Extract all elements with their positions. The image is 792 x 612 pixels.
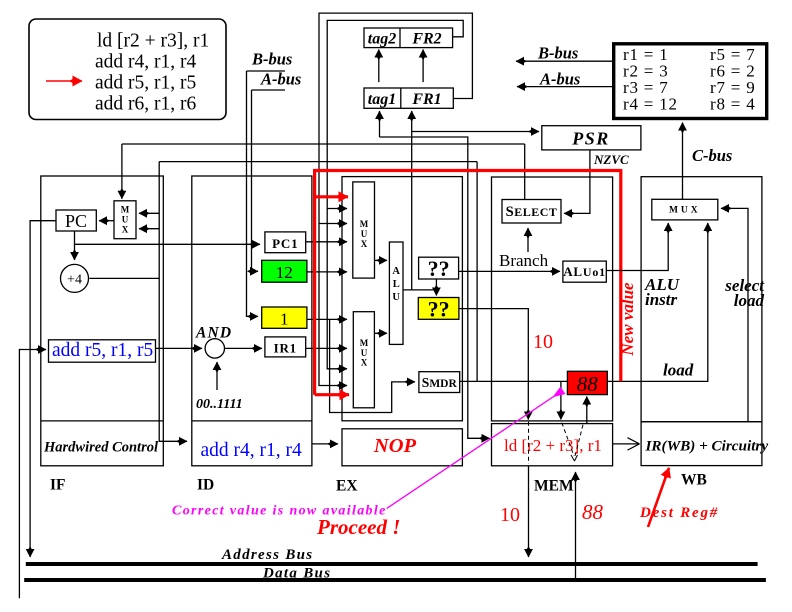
svg-text:load: load xyxy=(734,291,765,310)
svg-text:r8 = 4: r8 = 4 xyxy=(710,95,756,114)
svg-text:ld [r2 + r3], r1: ld [r2 + r3], r1 xyxy=(97,31,209,52)
ID stage box xyxy=(192,176,312,466)
arrow tag1 to tag2 xyxy=(378,50,380,83)
MEM ld box xyxy=(492,424,613,466)
svg-text:r4 = 12: r4 = 12 xyxy=(623,95,678,114)
wire yellow ?? to MEM address xyxy=(459,309,528,420)
arrow into IF mux right input 2 xyxy=(139,228,159,230)
svg-text:NZVC: NZVC xyxy=(593,152,629,167)
svg-text:88: 88 xyxy=(577,372,599,396)
FR1 output loop wire to EX mux2 xyxy=(319,13,472,385)
svg-text:PC1: PC1 xyxy=(272,236,298,251)
wire PC value to PC1 xyxy=(75,243,261,245)
wire yellow latch tap to SMDR xyxy=(330,319,415,412)
svg-text:MUX: MUX xyxy=(669,206,701,216)
B-bus label (left) xyxy=(247,50,293,72)
IR1 box xyxy=(265,337,306,357)
88 red box xyxy=(567,371,607,396)
wire PSR NZVC to Select xyxy=(564,150,590,214)
svg-text:Address Bus: Address Bus xyxy=(221,547,313,563)
Select box xyxy=(502,200,561,224)
svg-text:12: 12 xyxy=(276,263,293,282)
WB mux box xyxy=(652,199,718,220)
wire W1 into Select xyxy=(524,144,526,200)
red forwarding path xyxy=(315,171,621,395)
ALUo1 box xyxy=(563,261,606,282)
SMDR box xyxy=(419,372,460,393)
wire PC down to +4 xyxy=(74,231,76,260)
svg-text:SELECT: SELECT xyxy=(506,204,558,220)
wire data bus to fetched instruction xyxy=(19,350,46,599)
svg-text:A-bus: A-bus xyxy=(260,70,301,89)
svg-text:ALUo1: ALUo1 xyxy=(563,264,606,279)
svg-text:add r6, r1, r6: add r6, r1, r6 xyxy=(95,94,197,115)
arrow white ?? to yellow ?? xyxy=(435,279,437,296)
svg-text:load: load xyxy=(663,361,694,380)
svg-text:FR2: FR2 xyxy=(411,31,441,48)
instruction list box xyxy=(29,19,226,120)
MEM stage box xyxy=(492,177,613,421)
IF mux box xyxy=(114,201,136,239)
arrow AND to IR1 xyxy=(225,347,263,349)
svg-text:SMDR: SMDR xyxy=(422,375,458,390)
svg-text:M: M xyxy=(360,219,369,229)
yellow result box ?? xyxy=(418,297,459,322)
ALU output wire xyxy=(403,289,436,291)
svg-text:B-bus: B-bus xyxy=(251,50,292,69)
red arrow into EX mux1 xyxy=(315,195,348,198)
svg-text:88: 88 xyxy=(582,500,604,524)
wire B-bus to yellow operand latch xyxy=(247,71,259,316)
svg-text:tag2: tag2 xyxy=(368,31,396,48)
arrow W1 into IF mux xyxy=(121,144,123,199)
wire ALU result to tag1 and load IR path xyxy=(380,137,490,438)
svg-text:EX: EX xyxy=(336,478,358,495)
svg-text:A: A xyxy=(392,266,400,277)
svg-text:NOP: NOP xyxy=(373,435,417,457)
B-bus output wire of register file xyxy=(516,44,614,63)
svg-text:Branch: Branch xyxy=(499,251,549,270)
red arrow into EX mux2 xyxy=(315,393,349,396)
yellow operand latch 1 xyxy=(262,307,307,329)
arrow into IF mux right input 1 xyxy=(139,212,159,214)
dashed operand hints xyxy=(562,423,583,456)
wire SMDR to 88 box and WB load xyxy=(460,223,708,381)
wire data bus up into MEM xyxy=(575,472,577,580)
svg-text:1: 1 xyxy=(280,310,289,329)
select wire IR to WB mux xyxy=(721,208,748,421)
EX mux1 box xyxy=(353,182,375,278)
svg-text:FR1: FR1 xyxy=(411,91,441,108)
svg-text:New value: New value xyxy=(618,282,637,357)
ID stage separator xyxy=(192,420,312,422)
FR2 output loop wire to EX mux2 xyxy=(327,20,463,368)
svg-text:AND: AND xyxy=(195,325,232,342)
svg-text:L: L xyxy=(393,279,400,290)
svg-text:U: U xyxy=(361,348,368,358)
svg-text:Proceed !: Proceed ! xyxy=(316,515,400,539)
wire ALUo1 to WB mux xyxy=(606,223,668,271)
svg-text:??: ?? xyxy=(428,256,450,281)
green operand latch 12 xyxy=(262,260,307,282)
arrow MEM address to address bus xyxy=(528,466,530,557)
svg-text:WB: WB xyxy=(681,472,707,489)
IF stage separator xyxy=(41,420,164,422)
svg-text:PC: PC xyxy=(65,211,87,231)
svg-text:X: X xyxy=(361,358,368,368)
magenta annotation line xyxy=(387,391,563,509)
wire W3 to MEM area xyxy=(159,162,477,381)
svg-text:add r4, r1, r4: add r4, r1, r4 xyxy=(95,52,197,73)
arrow into tag1 xyxy=(379,111,381,137)
EX stage box xyxy=(342,177,462,421)
tag2/FR2 register xyxy=(364,28,453,48)
register file box xyxy=(614,44,767,119)
address bus line xyxy=(26,562,758,566)
wire ALU result to PSR xyxy=(412,131,539,133)
wire PC1 to EX mux1 xyxy=(306,241,347,243)
ALU result vertical into FR1 xyxy=(411,111,413,290)
svg-text:X: X xyxy=(122,225,129,235)
WB IR box xyxy=(641,422,762,466)
PC1 box xyxy=(265,232,306,253)
svg-text:M: M xyxy=(360,338,369,348)
svg-text:U: U xyxy=(361,229,368,239)
svg-text:C-bus: C-bus xyxy=(692,146,732,165)
svg-text:ld [r2 + r3], r1: ld [r2 + r3], r1 xyxy=(504,436,602,455)
wire W1 select/ifmux xyxy=(122,143,525,145)
svg-text:add r5, r1, r5: add r5, r1, r5 xyxy=(95,73,196,94)
svg-text:add r5, r1, r5: add r5, r1, r5 xyxy=(52,340,153,361)
white result box ?? xyxy=(419,256,459,281)
FR2 tap to EX mux1 xyxy=(327,208,347,210)
EX mux2 box xyxy=(353,312,374,408)
A-bus label (left) xyxy=(252,70,302,91)
select load label xyxy=(724,276,765,310)
svg-text:00..1111: 00..1111 xyxy=(196,397,243,412)
svg-text:??: ?? xyxy=(428,297,450,322)
arrow mux1 to ALU xyxy=(375,259,388,261)
arrow FR1 to FR2 xyxy=(422,50,424,83)
current instruction red arrow xyxy=(46,80,82,82)
svg-text:add r4, r1, r4: add r4, r1, r4 xyxy=(201,440,303,461)
PSR box xyxy=(542,126,641,150)
svg-text:MEM: MEM xyxy=(534,478,574,495)
arrow IF mux to PC xyxy=(99,220,114,222)
svg-text:instr: instr xyxy=(645,290,678,309)
svg-text:X: X xyxy=(361,239,368,249)
svg-text:U: U xyxy=(122,215,129,225)
svg-text:IR(WB) + Circuitry: IR(WB) + Circuitry xyxy=(645,438,769,455)
svg-text:IF: IF xyxy=(50,477,66,494)
wire A-bus to green operand latch xyxy=(252,90,259,271)
arrow mask into AND xyxy=(216,362,218,390)
svg-text:+4: +4 xyxy=(67,273,82,288)
AND gate circle xyxy=(205,339,224,358)
open arrow MEM to WB xyxy=(612,438,639,450)
tag1/FR1 register xyxy=(364,88,453,108)
arrow memory read into 88 xyxy=(586,397,588,425)
fetched instruction box add r5 xyxy=(49,340,156,362)
svg-text:B-bus: B-bus xyxy=(537,44,578,63)
PC box xyxy=(56,210,96,231)
svg-text:A-bus: A-bus xyxy=(539,70,580,89)
IF stage box xyxy=(41,176,164,466)
C-bus wire WB mux to register file xyxy=(682,123,684,200)
wire green latch to EX mux1 xyxy=(307,271,347,273)
+4 adder circle xyxy=(61,264,89,292)
svg-text:U: U xyxy=(392,292,400,303)
dashed address hint xyxy=(528,422,530,464)
wire PC to address bus xyxy=(30,221,56,557)
Branch arrow into Select xyxy=(527,228,529,252)
arrow mux2 to ALU xyxy=(374,332,387,334)
wire white ?? to ALUo1 xyxy=(459,270,560,272)
svg-text:ID: ID xyxy=(197,477,214,494)
svg-text:tag1: tag1 xyxy=(368,91,396,108)
ALU box xyxy=(389,242,403,344)
arrow memory write data down xyxy=(560,381,562,419)
svg-text:10: 10 xyxy=(533,331,553,353)
svg-text:10: 10 xyxy=(500,504,520,526)
svg-text:PSR: PSR xyxy=(571,129,610,149)
wire IR1 to EX mux2 xyxy=(306,347,347,349)
WB stage box xyxy=(641,177,762,422)
svg-text:Hardwired Control: Hardwired Control xyxy=(43,440,158,456)
wire +4 output up to IF mux and down to ID xyxy=(89,162,187,442)
arrow add r5 into AND xyxy=(156,347,202,349)
wire yellow latch to EX mux2 xyxy=(307,318,347,320)
FR1 tap to EX mux1 xyxy=(319,223,347,225)
svg-text:M: M xyxy=(121,205,130,215)
arrow ID to EX NOP xyxy=(312,443,338,445)
svg-text:IR1: IR1 xyxy=(274,341,297,356)
A-bus output wire of register file xyxy=(517,70,614,89)
data bus line xyxy=(24,578,766,582)
EX NOP box xyxy=(342,429,462,466)
ALU instr label xyxy=(644,275,680,309)
red arrow Dest Reg to WB xyxy=(648,468,669,527)
